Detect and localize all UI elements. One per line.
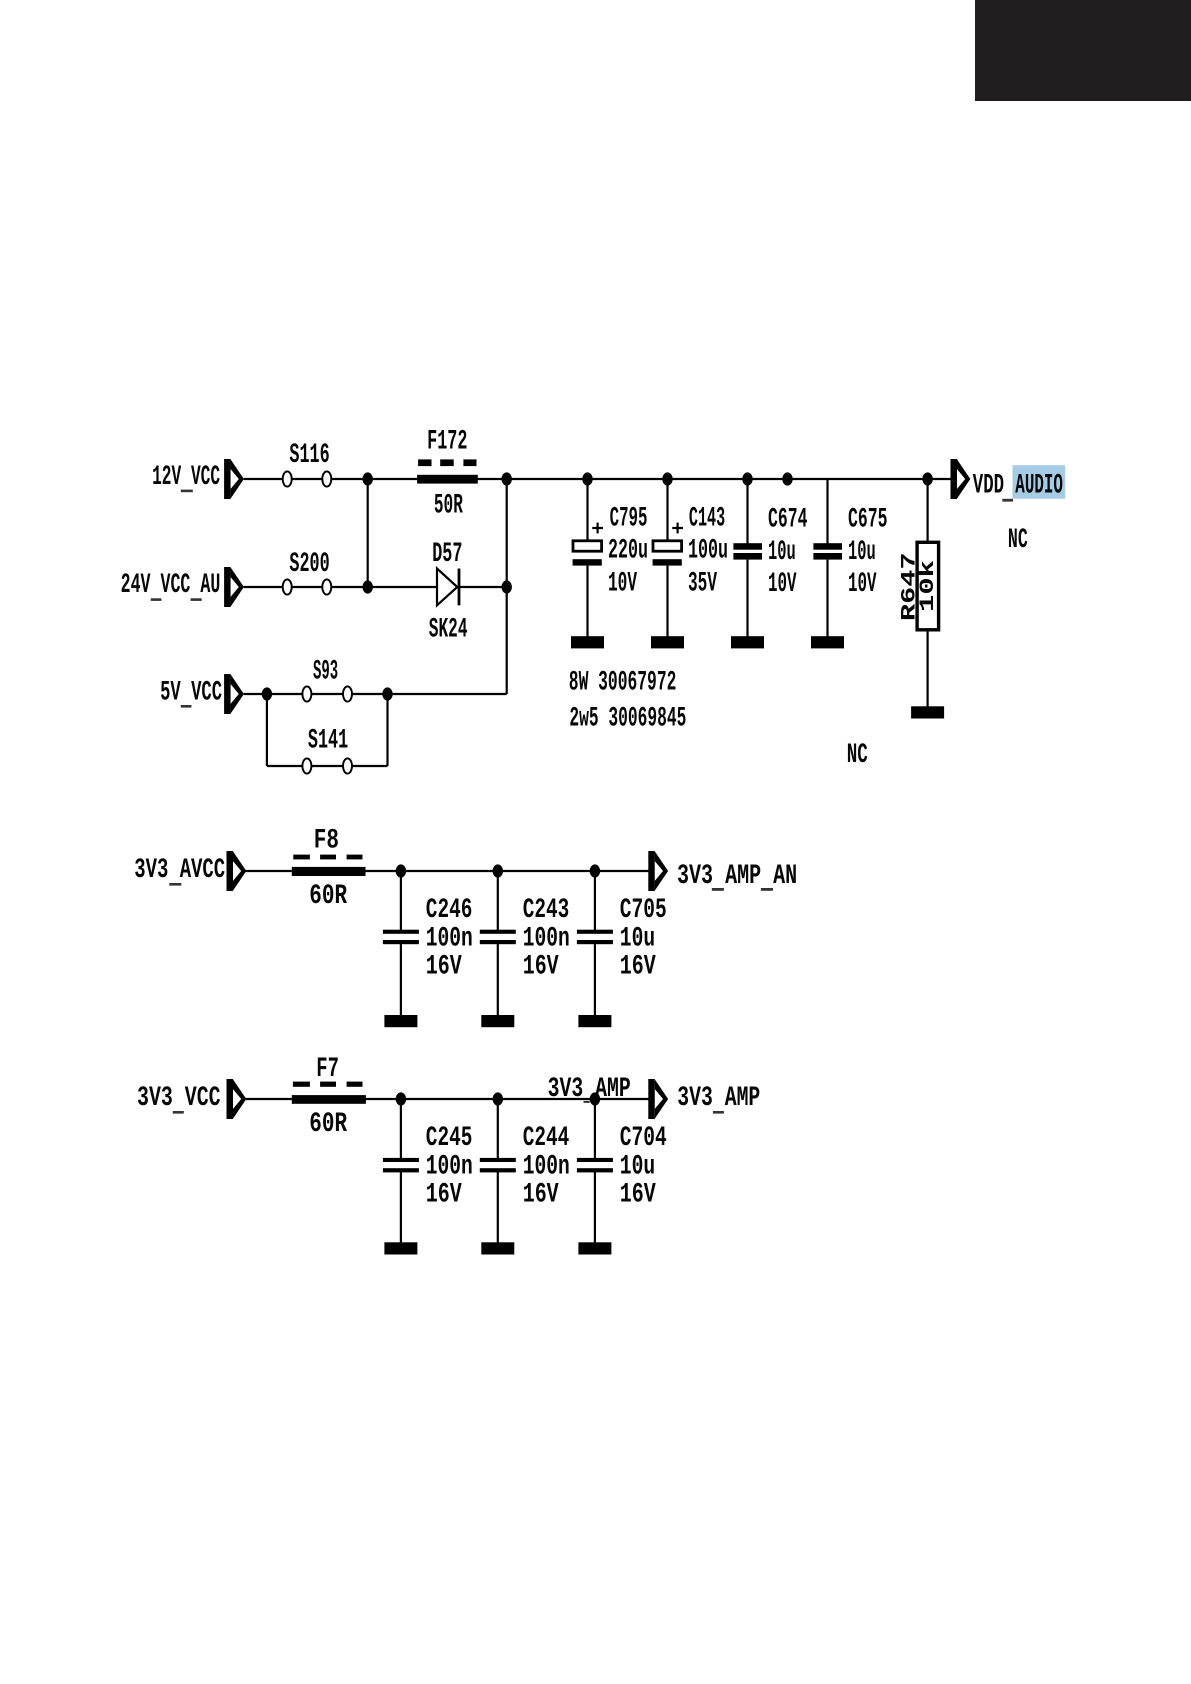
capacitor C675 10u 10V [813,479,842,637]
svg-text:16V: 16V [620,951,656,982]
port 5V_VCC [224,674,244,714]
node B1 (junction) [363,580,373,593]
node D1 (junction) [396,864,406,877]
svg-text:D57: D57 [432,539,462,570]
node C2 (junction) [382,687,392,700]
wire net 24V row right (diode cathode to tie) [459,586,507,588]
svg-text:2w5 30069845: 2w5 30069845 [569,703,686,734]
svg-text:16V: 16V [620,1179,656,1210]
ground GND C244 [481,1242,514,1254]
ground GND C246 [384,1015,417,1027]
svg-text:C245: C245 [426,1123,473,1154]
diode D57 SK24 [437,569,460,606]
svg-text:NC: NC [847,740,868,771]
svg-text:3V3 AMP: 3V3 AMP [548,1074,631,1105]
svg-text:16V: 16V [426,951,462,982]
svg-text:S116: S116 [289,440,329,471]
node A5 (junction) [742,472,752,485]
port 3V3_AVCC [227,851,247,891]
svg-text:10u: 10u [768,537,796,568]
svg-text:C243: C243 [523,895,570,926]
capacitor C704 10u 16V [577,1099,613,1243]
node A6 (junction) [782,472,792,485]
ground GND C704 [578,1242,611,1254]
ground GND C795 [571,636,604,648]
svg-text:12V VCC: 12V VCC [152,462,220,493]
capacitor C243 100n 16V [480,871,516,1016]
svg-text:24V VCC AU: 24V VCC AU [121,570,221,601]
port 3V3_AMP [648,1079,668,1119]
fuse F8 60R [292,855,366,876]
fuse F7 60R [292,1082,366,1104]
node B2 (junction) [502,580,512,593]
svg-text:50R: 50R [434,490,463,521]
ground GND C243 [481,1015,514,1027]
node A3 (junction) [582,472,592,485]
svg-text:100n: 100n [426,923,473,954]
svg-text:F172: F172 [427,427,467,458]
node A2 (junction) [502,472,512,485]
node D3 (junction) [590,864,600,877]
node C1 (junction) [262,687,272,700]
node A1 (junction) [363,472,373,485]
svg-text:C705: C705 [620,895,667,926]
svg-text:16V: 16V [426,1179,462,1210]
ground GND R647 [911,706,944,718]
capacitor C674 10u 10V [733,479,762,637]
port 3V3_AMP_AN [648,851,668,891]
svg-text:5V VCC: 5V VCC [160,677,222,708]
capacitor C245 100n 16V [383,1099,419,1243]
svg-text:C143: C143 [689,503,725,534]
wire S141 bypass right drop [386,694,388,766]
wire 3V3_VCC row left [244,1098,292,1100]
capacitor C143 100u 35V (electrolytic) [653,479,683,637]
node A7 (junction) [922,472,932,485]
port 3V3_VCC [227,1079,247,1119]
svg-text:C795: C795 [610,503,648,534]
node E2 (junction) [493,1092,503,1105]
wire net 24V row left [244,586,438,588]
svg-text:3V3 AVCC: 3V3 AVCC [134,855,225,886]
svg-text:F8: F8 [314,826,339,857]
svg-text:16V: 16V [523,1179,559,1210]
svg-text:10k: 10k [917,560,940,612]
svg-text:220u: 220u [608,535,648,566]
port 12V_VCC [224,459,244,499]
svg-text:C674: C674 [768,505,808,536]
node A4 (junction) [662,472,672,485]
svg-text:C704: C704 [620,1123,667,1154]
wire 3V3_AVCC row right [366,870,649,872]
svg-text:S141: S141 [308,725,348,756]
svg-text:8W 30067972: 8W 30067972 [569,667,677,698]
svg-text:3V3 VCC: 3V3 VCC [137,1083,221,1114]
svg-text:10V: 10V [608,568,637,599]
svg-text:C246: C246 [426,895,473,926]
svg-text:10u: 10u [620,923,655,954]
jumper S141 [302,758,352,773]
jumper S116 [283,471,332,486]
svg-text:10V: 10V [768,569,797,600]
wire 3V3_VCC row right [366,1098,649,1100]
svg-text:AUDIO: AUDIO [1015,470,1063,501]
svg-text:S200: S200 [289,549,329,580]
capacitor C246 100n 16V [383,871,419,1016]
svg-text:C244: C244 [523,1123,570,1154]
wire net 5V row [244,693,507,695]
svg-text:100n: 100n [523,1151,570,1182]
capacitor C705 10u 16V [577,871,613,1016]
wire net 12V row [244,478,951,480]
svg-text:100n: 100n [523,923,570,954]
wire S141 bypass left drop [266,694,268,766]
node D2 (junction) [493,864,503,877]
port 24V_VCC_AU [224,567,244,607]
highlight box on AUDIO [1013,465,1066,499]
svg-text:60R: 60R [309,1109,347,1140]
jumper S93 [302,686,352,701]
svg-text:10u: 10u [848,537,876,568]
wire S141 bypass bottom [267,765,388,767]
svg-text:3V3 AMP AN: 3V3 AMP AN [677,861,797,892]
capacitor C244 100n 16V [480,1099,516,1243]
svg-text:10u: 10u [620,1151,655,1182]
resistor R647 10k [917,479,939,707]
svg-text:10V: 10V [848,569,877,600]
svg-text:VDD: VDD [973,470,1004,501]
ground GND C245 [384,1242,417,1254]
capacitor C795 220u 10V (electrolytic) [573,479,603,637]
svg-text:C675: C675 [848,505,888,536]
dark title-block box (top-right corner) [975,0,1191,101]
wire vertical 12V-24V tie [367,479,369,587]
svg-text:35V: 35V [688,568,717,599]
svg-text:S93: S93 [313,657,338,688]
svg-text:NC: NC [1008,525,1028,556]
svg-text:F7: F7 [316,1054,339,1085]
ground GND C143 [651,636,684,648]
svg-text:SK24: SK24 [429,615,468,646]
svg-text:100u: 100u [688,535,728,566]
svg-text:60R: 60R [309,881,347,912]
svg-text:3V3 AMP: 3V3 AMP [677,1083,760,1114]
jumper S200 [283,579,332,594]
wire vertical diode output tie [506,479,508,694]
fuse F172 50R [417,459,478,483]
ground GND C675 [811,636,844,648]
node E1 (junction) [396,1092,406,1105]
node E3 (junction) [590,1092,600,1105]
svg-text:16V: 16V [523,951,559,982]
wire 3V3_AVCC row left [244,870,292,872]
svg-text:100n: 100n [426,1151,473,1182]
port VDD_AUDIO [951,459,971,499]
ground GND C674 [731,636,764,648]
ground GND C705 [578,1015,611,1027]
